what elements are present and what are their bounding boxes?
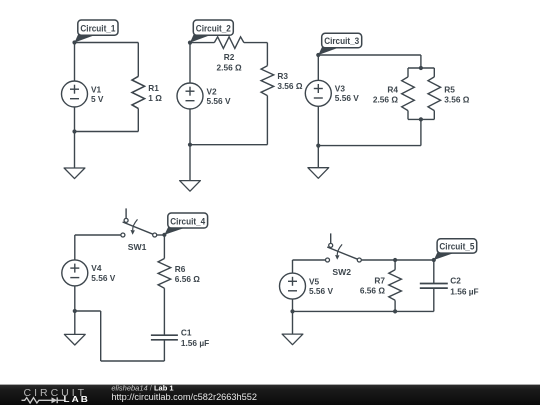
svg-text:1 Ω: 1 Ω <box>148 93 162 103</box>
svg-text:Circuit_1: Circuit_1 <box>80 24 115 34</box>
svg-text:5.56 V: 5.56 V <box>309 286 333 296</box>
svg-text:R2: R2 <box>224 52 235 62</box>
svg-text:Circuit_4: Circuit_4 <box>170 216 205 226</box>
svg-text:V3: V3 <box>335 84 346 94</box>
svg-text:R3: R3 <box>277 71 288 81</box>
svg-text:Circuit_5: Circuit_5 <box>439 242 474 252</box>
svg-text:1.56 µF: 1.56 µF <box>181 338 209 348</box>
svg-text:http://circuitlab.com/c582r266: http://circuitlab.com/c582r2663h552 <box>111 392 257 402</box>
svg-text:elisheba14 / Lab 1: elisheba14 / Lab 1 <box>111 383 173 392</box>
svg-text:R6: R6 <box>175 264 186 274</box>
svg-text:5 V: 5 V <box>91 94 104 104</box>
svg-text:2.56 Ω: 2.56 Ω <box>217 62 242 72</box>
svg-text:3.56 Ω: 3.56 Ω <box>277 81 302 91</box>
svg-text:C2: C2 <box>450 276 461 286</box>
svg-text:1.56 µF: 1.56 µF <box>450 286 478 296</box>
svg-text:5.56 V: 5.56 V <box>91 273 115 283</box>
svg-text:R4: R4 <box>387 84 398 94</box>
svg-text:5.56 V: 5.56 V <box>207 96 231 106</box>
svg-text:Circuit_3: Circuit_3 <box>324 36 359 46</box>
svg-text:SW1: SW1 <box>128 242 147 252</box>
svg-text:R5: R5 <box>444 84 455 94</box>
svg-text:LAB: LAB <box>64 394 91 404</box>
svg-text:R1: R1 <box>148 83 159 93</box>
svg-text:Circuit_2: Circuit_2 <box>196 24 231 34</box>
svg-text:6.56 Ω: 6.56 Ω <box>175 274 200 284</box>
svg-text:3.56 Ω: 3.56 Ω <box>444 95 469 105</box>
svg-text:V2: V2 <box>207 86 218 96</box>
svg-text:R7: R7 <box>374 276 385 286</box>
svg-text:6.56 Ω: 6.56 Ω <box>360 286 385 296</box>
svg-text:V5: V5 <box>309 276 320 286</box>
svg-text:5.56 V: 5.56 V <box>335 93 359 103</box>
svg-text:SW2: SW2 <box>332 267 351 277</box>
svg-text:C1: C1 <box>181 327 192 337</box>
svg-text:V4: V4 <box>91 263 102 273</box>
svg-text:V1: V1 <box>91 84 102 94</box>
svg-text:2.56 Ω: 2.56 Ω <box>373 95 398 105</box>
